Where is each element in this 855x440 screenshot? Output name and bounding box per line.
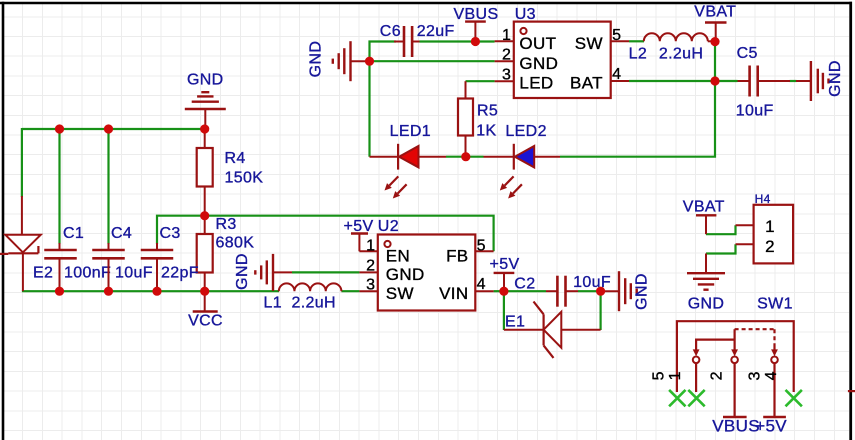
svg-text:E2: E2 — [33, 265, 53, 282]
svg-text:100nF: 100nF — [64, 265, 111, 282]
svg-text:C4: C4 — [111, 225, 132, 242]
junction — [200, 287, 209, 296]
wire — [205, 216, 494, 252]
svg-text:GND: GND — [827, 60, 844, 97]
svg-text:GND: GND — [634, 273, 651, 310]
svg-text:VBUS: VBUS — [712, 417, 760, 436]
power +5V — [755, 417, 787, 436]
wire — [58, 129, 60, 244]
svg-text:3: 3 — [747, 371, 764, 380]
svg-text:22uF: 22uF — [417, 23, 455, 40]
junction — [104, 287, 113, 296]
ground — [796, 60, 844, 101]
svg-text:4: 4 — [763, 371, 780, 380]
wire — [22, 128, 205, 130]
svg-text:10uF: 10uF — [115, 265, 153, 282]
svg-text:VBUS: VBUS — [454, 6, 499, 23]
power VBAT — [694, 4, 736, 42]
power VBUS — [454, 6, 499, 42]
inductor L1 — [264, 283, 342, 311]
svg-text:R4: R4 — [225, 150, 246, 167]
ground — [601, 271, 651, 311]
svg-text:2: 2 — [366, 257, 375, 274]
svg-text:5: 5 — [612, 27, 621, 44]
junction — [471, 37, 480, 46]
svg-text:GND: GND — [688, 296, 725, 313]
switch SW1 — [651, 296, 794, 418]
svg-text:OUT: OUT — [519, 34, 556, 53]
svg-text:1: 1 — [765, 217, 775, 236]
junction — [710, 76, 719, 85]
svg-text:L2: L2 — [629, 46, 648, 63]
svg-text:+5V: +5V — [344, 218, 374, 235]
svg-text:BAT: BAT — [570, 74, 603, 93]
resistor R3 — [197, 216, 255, 292]
wire — [107, 129, 109, 244]
ground — [185, 72, 226, 130]
svg-text:C2: C2 — [514, 276, 535, 293]
svg-text:10uF: 10uF — [736, 103, 774, 120]
svg-text:EN: EN — [386, 247, 410, 266]
IC U3 — [495, 6, 629, 98]
junction — [200, 124, 209, 133]
wire — [370, 42, 397, 62]
wire — [599, 291, 601, 330]
svg-text:E1: E1 — [505, 314, 525, 331]
resistor R5 — [458, 81, 498, 157]
wire — [494, 290, 504, 292]
wire — [706, 225, 736, 234]
capacitor C3 — [141, 225, 199, 291]
wire — [503, 291, 505, 330]
wire — [370, 60, 495, 62]
junction — [461, 152, 470, 161]
no-connect pin 4 — [786, 390, 802, 406]
svg-text:FB: FB — [446, 247, 468, 266]
svg-text:3: 3 — [366, 276, 375, 293]
capacitor C6 — [380, 23, 455, 57]
svg-text:C5: C5 — [737, 45, 758, 62]
junction — [365, 57, 374, 66]
svg-text:5: 5 — [477, 237, 486, 254]
svg-text:U3: U3 — [515, 6, 536, 23]
svg-text:SW: SW — [386, 284, 414, 303]
svg-text:GND: GND — [386, 265, 425, 284]
power +5V — [344, 218, 374, 251]
junction — [104, 124, 113, 133]
svg-text:U2: U2 — [378, 218, 399, 235]
svg-text:VBAT: VBAT — [694, 4, 736, 21]
power VBAT — [683, 199, 725, 235]
power VBUS — [712, 417, 760, 436]
junction — [499, 287, 508, 296]
capacitor C5 — [736, 45, 790, 120]
svg-text:VBAT: VBAT — [683, 199, 725, 216]
svg-text:SW1: SW1 — [757, 296, 793, 313]
wire — [446, 156, 484, 158]
wire — [560, 42, 715, 157]
capacitor C2 — [514, 274, 611, 307]
junction — [55, 124, 64, 133]
svg-text:1: 1 — [366, 237, 375, 254]
wire — [629, 40, 644, 42]
svg-text:C1: C1 — [63, 225, 84, 242]
svg-text:2: 2 — [708, 371, 725, 380]
junction — [152, 287, 161, 296]
svg-text:C3: C3 — [160, 225, 181, 242]
wire — [341, 290, 359, 292]
svg-text:5: 5 — [651, 371, 668, 380]
svg-text:2.2uH: 2.2uH — [659, 46, 703, 63]
wire — [22, 290, 279, 292]
junction — [710, 37, 719, 46]
wire — [21, 128, 23, 197]
svg-text:4: 4 — [612, 66, 621, 83]
svg-text:VIN: VIN — [439, 284, 468, 303]
svg-text:SW: SW — [575, 34, 603, 53]
wire — [157, 216, 205, 244]
ground — [687, 254, 725, 313]
svg-text:2: 2 — [765, 237, 775, 256]
svg-text:GND: GND — [187, 72, 224, 89]
resistor R4 — [197, 129, 264, 216]
capacitor C4 — [92, 225, 153, 291]
inductor L2 — [629, 33, 715, 62]
wire — [629, 80, 715, 82]
ground — [234, 253, 292, 291]
wire — [292, 271, 359, 273]
power +5V — [490, 256, 520, 291]
no-connect pin 5 — [669, 390, 685, 406]
svg-text:680K: 680K — [216, 235, 255, 252]
ground — [308, 41, 370, 82]
svg-text:1: 1 — [502, 27, 511, 44]
wire — [368, 61, 370, 157]
svg-text:R5: R5 — [477, 103, 498, 120]
wire — [578, 290, 601, 292]
svg-text:LED1: LED1 — [390, 123, 431, 140]
svg-text:GND: GND — [519, 54, 558, 73]
svg-text:2.2uH: 2.2uH — [292, 295, 336, 312]
svg-text:1K: 1K — [476, 123, 496, 140]
junction — [596, 287, 605, 296]
connector H4 — [736, 192, 794, 263]
svg-text:22pF: 22pF — [161, 265, 199, 282]
no-connect pin 1 — [688, 390, 704, 406]
wire — [790, 80, 797, 82]
svg-text:10uF: 10uF — [573, 274, 611, 291]
LED LED2 — [484, 123, 561, 199]
svg-text:2: 2 — [502, 47, 511, 64]
junction — [55, 287, 64, 296]
svg-text:C6: C6 — [380, 23, 401, 40]
svg-text:+5V: +5V — [755, 417, 787, 436]
wire — [466, 80, 495, 82]
svg-text:H4: H4 — [755, 192, 771, 206]
svg-text:+5V: +5V — [490, 256, 520, 273]
svg-text:4: 4 — [477, 276, 486, 293]
wire — [848, 390, 855, 392]
wire — [420, 40, 495, 42]
svg-text:GND: GND — [308, 41, 325, 78]
svg-text:LED2: LED2 — [505, 123, 546, 140]
svg-text:GND: GND — [234, 253, 251, 290]
wire — [715, 80, 738, 82]
svg-text:L1: L1 — [264, 295, 283, 312]
svg-text:VCC: VCC — [188, 313, 223, 330]
wire — [504, 290, 546, 292]
capacitor C1 — [44, 225, 111, 291]
svg-text:LED: LED — [519, 74, 553, 93]
power VCC — [188, 291, 223, 329]
zener diode E2 — [0, 196, 53, 291]
svg-text:1: 1 — [667, 371, 684, 380]
svg-text:3: 3 — [502, 67, 511, 84]
LED LED1 — [370, 123, 447, 199]
IC U2 — [359, 218, 493, 311]
junction — [200, 211, 209, 220]
svg-text:R3: R3 — [216, 216, 237, 233]
svg-text:150K: 150K — [225, 170, 264, 187]
wire — [706, 244, 736, 253]
zener diode E1 — [504, 302, 601, 358]
